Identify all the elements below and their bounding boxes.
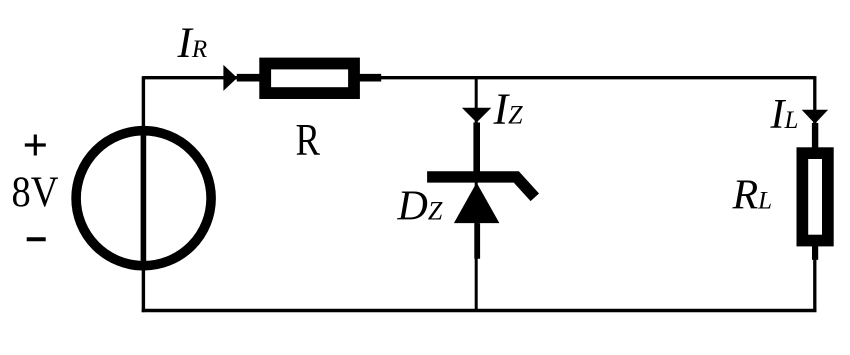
minus sign of source <box>27 237 46 241</box>
wire top rail <box>143 76 814 79</box>
current arrow IR <box>223 65 237 91</box>
svg-text:IL: IL <box>770 92 799 138</box>
resistor R left lead stub <box>237 74 260 82</box>
svg-text:RL: RL <box>732 172 773 218</box>
svg-text:DZ: DZ <box>397 183 443 229</box>
current arrow IL <box>802 110 828 124</box>
wire left vertical <box>142 76 145 312</box>
load resistor RL body <box>802 153 828 240</box>
voltage source V1 internal bar <box>141 126 147 270</box>
zener DZ cathode bar with bent tail <box>427 177 535 197</box>
zener DZ bottom lead <box>474 223 480 259</box>
load resistor RL top lead <box>812 123 818 149</box>
wire right vertical <box>813 76 816 310</box>
plus sign of source <box>25 135 46 156</box>
wire bottom rail <box>142 309 817 313</box>
current arrow IZ <box>462 108 491 123</box>
load resistor RL bottom lead <box>812 245 818 260</box>
wire middle branch (zener branch) <box>475 76 478 310</box>
resistor R body <box>265 64 354 94</box>
resistor R right lead stub <box>359 74 381 82</box>
svg-text:IZ: IZ <box>493 85 524 134</box>
svg-text:8V: 8V <box>12 169 59 216</box>
zener DZ top lead <box>473 123 480 174</box>
svg-text:R: R <box>296 114 321 165</box>
svg-text:IR: IR <box>177 20 208 67</box>
voltage source V1 circle <box>76 131 211 266</box>
zener DZ anode triangle <box>454 183 500 224</box>
